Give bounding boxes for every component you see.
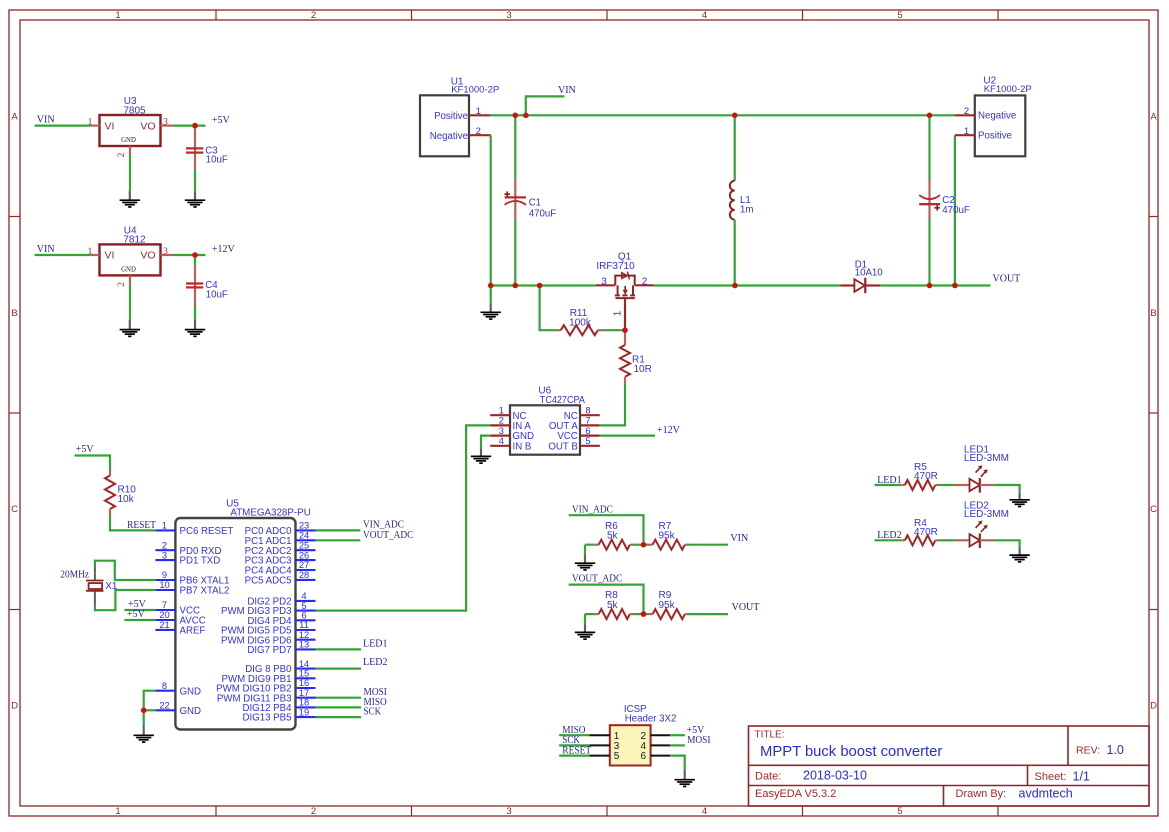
- ground: [120, 320, 140, 337]
- svg-text:2: 2: [499, 416, 504, 426]
- wire: [316, 667, 362, 669]
- svg-text:IRF3710: IRF3710: [596, 261, 635, 272]
- junction: [927, 113, 933, 119]
- resistor R11 100k: [556, 308, 603, 335]
- svg-text:VIN_ADC: VIN_ADC: [572, 504, 613, 515]
- svg-text:VI: VI: [105, 120, 115, 132]
- svg-text:C1: C1: [529, 198, 541, 209]
- net label RESET: [562, 745, 591, 756]
- svg-text:5: 5: [897, 806, 902, 817]
- svg-text:470uF: 470uF: [942, 205, 970, 216]
- net label MISO: [562, 725, 585, 736]
- resistor R10 10k: [105, 470, 136, 516]
- wire: [633, 544, 649, 546]
- svg-text:1: 1: [88, 247, 93, 257]
- svg-text:2: 2: [476, 126, 481, 137]
- svg-text:DIG13 PB5: DIG13 PB5: [242, 713, 291, 724]
- svg-text:VIN: VIN: [37, 115, 55, 126]
- svg-text:Positive: Positive: [978, 131, 1012, 142]
- svg-text:10: 10: [159, 580, 169, 590]
- wire: [316, 539, 361, 541]
- svg-text:5k: 5k: [607, 600, 619, 611]
- svg-text:TC427CPA: TC427CPA: [540, 395, 586, 406]
- net label VIN: [37, 115, 55, 126]
- svg-text:PC6 RESET: PC6 RESET: [180, 526, 234, 537]
- wire: [994, 485, 1019, 492]
- net label VOUT_ADC: [363, 530, 414, 541]
- wire: [129, 285, 131, 320]
- wire: [585, 544, 595, 546]
- junction: [732, 283, 738, 289]
- svg-text:10k: 10k: [118, 494, 135, 505]
- svg-text:RESET: RESET: [562, 745, 591, 756]
- ground: [1009, 548, 1029, 562]
- net flag +5V: [127, 609, 146, 620]
- op-amp driver U6 TC427CPA: [490, 385, 600, 454]
- wire: [689, 613, 729, 615]
- ground: [134, 726, 154, 742]
- svg-text:9: 9: [162, 570, 167, 580]
- capacitor C1 470uF: [504, 115, 556, 285]
- title block: [749, 726, 1150, 806]
- svg-text:2: 2: [964, 106, 969, 117]
- connector U1 KF1000-2P: [420, 76, 499, 156]
- svg-text:1/1: 1/1: [1073, 769, 1090, 783]
- svg-text:C: C: [1150, 504, 1157, 515]
- ground: [575, 624, 595, 639]
- svg-text:3: 3: [601, 276, 607, 287]
- resistor R8 5k: [595, 590, 633, 619]
- svg-text:7: 7: [585, 416, 590, 426]
- junction: [192, 123, 198, 129]
- wire: [144, 709, 156, 711]
- wire: [670, 744, 685, 746]
- svg-text:IN B: IN B: [513, 441, 532, 452]
- wire U6 GND: [481, 436, 490, 449]
- wire: [584, 614, 586, 624]
- net label VIN_ADC: [363, 520, 404, 531]
- net label VIN_ADC: [572, 504, 613, 515]
- svg-text:PC5 ADC5: PC5 ADC5: [245, 576, 292, 587]
- svg-text:5: 5: [585, 436, 590, 446]
- wire: [316, 716, 362, 718]
- LED LED2 LED-3MM: [955, 500, 1009, 548]
- svg-text:28: 28: [299, 570, 309, 580]
- svg-text:Negative: Negative: [430, 131, 468, 142]
- svg-text:DIG7 PD7: DIG7 PD7: [247, 645, 291, 656]
- svg-text:3: 3: [506, 10, 511, 21]
- svg-text:3: 3: [506, 806, 511, 817]
- svg-text:KF1000-2P: KF1000-2P: [451, 84, 499, 95]
- ground: [471, 449, 491, 463]
- wire: [569, 515, 644, 545]
- svg-text:2: 2: [311, 10, 316, 21]
- svg-text:7: 7: [162, 600, 167, 610]
- svg-text:470R: 470R: [914, 527, 938, 538]
- diode D1 10A10: [840, 259, 883, 293]
- svg-text:VOUT: VOUT: [732, 602, 760, 613]
- wire: [124, 609, 155, 611]
- svg-text:LED-3MM: LED-3MM: [964, 509, 1009, 520]
- svg-text:VIN: VIN: [558, 85, 576, 96]
- wire U2 pin1 drop: [954, 135, 956, 285]
- svg-text:6: 6: [301, 611, 306, 621]
- svg-text:100k: 100k: [569, 318, 592, 329]
- net label LED1: [363, 638, 387, 649]
- net label LED2: [877, 530, 901, 541]
- svg-text:3: 3: [499, 426, 504, 436]
- resistor R5 470R: [901, 462, 939, 490]
- svg-text:2: 2: [117, 152, 127, 157]
- svg-text:15: 15: [299, 669, 309, 679]
- net label SCK: [562, 735, 580, 746]
- svg-text:17: 17: [299, 688, 309, 698]
- net label MOSI: [687, 735, 710, 746]
- svg-text:16: 16: [299, 678, 309, 688]
- svg-text:3: 3: [163, 118, 168, 128]
- resistor R4 470R: [901, 518, 939, 545]
- svg-text:GND: GND: [180, 686, 202, 697]
- svg-text:OUT B: OUT B: [548, 441, 577, 452]
- svg-text:470R: 470R: [914, 471, 938, 482]
- net flag +5V: [128, 599, 147, 610]
- svg-text:4: 4: [702, 10, 707, 21]
- svg-text:EasyEDA V5.3.2: EasyEDA V5.3.2: [755, 788, 836, 800]
- svg-text:1: 1: [162, 521, 167, 531]
- junction: [537, 283, 543, 289]
- svg-text:5: 5: [614, 751, 620, 762]
- crystal X1 20MHz: [60, 567, 118, 605]
- svg-text:VOUT: VOUT: [993, 274, 1021, 285]
- svg-text:12: 12: [299, 630, 309, 640]
- wire: [35, 254, 91, 256]
- wire bottom rail mid: [654, 284, 840, 286]
- wire: [689, 544, 729, 546]
- ground: [481, 305, 501, 320]
- net label VIN: [37, 244, 55, 255]
- svg-text:1: 1: [964, 126, 969, 137]
- inductor L1 1m: [730, 115, 754, 285]
- net label VIN: [730, 533, 748, 544]
- net label MISO: [364, 697, 387, 708]
- svg-text:VOUT_ADC: VOUT_ADC: [363, 530, 414, 541]
- svg-text:GND: GND: [180, 706, 202, 717]
- wire: [124, 619, 155, 621]
- wire U6 VCC: [600, 435, 655, 437]
- svg-text:+5V: +5V: [212, 115, 231, 126]
- wire: [316, 529, 361, 531]
- net label VOUT: [993, 274, 1021, 285]
- svg-text:REV:: REV:: [1076, 745, 1100, 757]
- svg-text:5: 5: [301, 601, 306, 611]
- svg-text:11: 11: [299, 620, 309, 630]
- wire bottom rail right: [880, 284, 990, 286]
- header ICSP 3X2: [589, 704, 676, 765]
- svg-text:AREF: AREF: [180, 626, 206, 637]
- svg-text:VIN: VIN: [730, 533, 748, 544]
- net label MOSI: [364, 687, 387, 698]
- wire: [603, 329, 626, 331]
- svg-text:B: B: [1150, 308, 1156, 319]
- svg-text:C: C: [11, 504, 18, 515]
- wire: [316, 648, 362, 650]
- svg-text:26: 26: [299, 550, 309, 560]
- svg-text:RESET: RESET: [127, 520, 156, 531]
- svg-text:19: 19: [299, 707, 309, 717]
- svg-text:20: 20: [159, 610, 169, 620]
- svg-text:6: 6: [585, 426, 590, 436]
- svg-text:+5V: +5V: [76, 444, 95, 455]
- regulator U4 7812: [88, 225, 174, 286]
- svg-text:2018-03-10: 2018-03-10: [803, 768, 867, 782]
- ground: [120, 190, 140, 207]
- resistor R1 10R: [620, 330, 652, 383]
- wire GND pins: [144, 691, 156, 726]
- net flag +12V: [657, 425, 681, 436]
- svg-text:7805: 7805: [123, 105, 146, 116]
- svg-text:5k: 5k: [607, 530, 619, 541]
- svg-text:Negative: Negative: [978, 111, 1016, 122]
- resistor R7 95k: [649, 521, 689, 550]
- svg-text:24: 24: [299, 531, 309, 541]
- svg-text:D: D: [1150, 700, 1157, 711]
- junction: [927, 283, 933, 289]
- net flag +12V: [212, 244, 236, 255]
- svg-text:23: 23: [299, 521, 309, 531]
- svg-text:MPPT buck boost converter: MPPT buck boost converter: [760, 744, 942, 760]
- svg-text:2: 2: [311, 806, 316, 817]
- capacitor C3: [186, 126, 228, 170]
- svg-text:+5V: +5V: [127, 609, 146, 620]
- capacitor C4: [186, 255, 228, 306]
- connector U2 KF1000-2P: [955, 76, 1032, 157]
- net label VOUT: [732, 602, 760, 613]
- wire: [194, 306, 196, 320]
- svg-text:3: 3: [163, 247, 168, 257]
- wire: [559, 734, 589, 736]
- resistor R6 5k: [595, 521, 633, 550]
- net label LED1: [877, 475, 901, 486]
- svg-text:1: 1: [499, 405, 504, 415]
- svg-text:21: 21: [159, 620, 169, 630]
- svg-text:KF1000-2P: KF1000-2P: [984, 84, 1032, 95]
- wire R11 tap: [540, 286, 556, 331]
- svg-text:6: 6: [640, 751, 646, 762]
- junction: [513, 283, 519, 289]
- svg-text:TITLE:: TITLE:: [755, 730, 785, 741]
- svg-text:VO: VO: [140, 120, 155, 132]
- ground: [575, 555, 595, 570]
- svg-text:SCK: SCK: [364, 707, 382, 718]
- ground: [1009, 492, 1029, 506]
- net flag +5V: [212, 115, 231, 126]
- net label VIN: [526, 85, 576, 116]
- svg-text:1: 1: [476, 106, 481, 117]
- wire: [174, 124, 206, 126]
- wire: [939, 484, 955, 486]
- wire: [174, 254, 206, 256]
- wire XTAL2 loop: [95, 590, 155, 610]
- svg-text:VIN: VIN: [37, 244, 55, 255]
- svg-text:Header 3X2: Header 3X2: [625, 713, 677, 724]
- wire: [670, 734, 685, 736]
- wire bottom rail left: [491, 284, 596, 286]
- svg-text:1.0: 1.0: [1107, 743, 1124, 757]
- svg-text:1: 1: [88, 118, 93, 128]
- svg-text:1: 1: [115, 806, 120, 817]
- wire: [875, 539, 902, 541]
- wire: [129, 155, 131, 190]
- wire: [559, 754, 589, 756]
- junction: [952, 283, 958, 289]
- junction: [488, 283, 494, 289]
- svg-text:GND: GND: [121, 137, 136, 144]
- svg-text:Date:: Date:: [755, 770, 781, 782]
- svg-text:PD1 TXD: PD1 TXD: [180, 556, 221, 567]
- junction: [192, 252, 198, 258]
- svg-text:A: A: [11, 111, 18, 122]
- wire: [194, 169, 196, 190]
- junction: [641, 542, 647, 548]
- svg-text:10R: 10R: [634, 364, 652, 375]
- svg-text:2: 2: [117, 282, 127, 287]
- svg-text:D: D: [11, 700, 18, 711]
- ground: [185, 190, 205, 207]
- svg-text:MOSI: MOSI: [687, 735, 710, 746]
- svg-text:10A10: 10A10: [855, 267, 884, 278]
- wire: [939, 539, 955, 541]
- wire: [875, 484, 902, 486]
- wire: [316, 697, 362, 699]
- wire: [585, 613, 595, 615]
- wire: [35, 124, 91, 126]
- svg-text:ATMEGA328P-PU: ATMEGA328P-PU: [230, 508, 310, 519]
- svg-text:2: 2: [642, 276, 648, 287]
- svg-text:B: B: [11, 308, 17, 319]
- svg-text:25: 25: [299, 540, 309, 550]
- svg-text:95k: 95k: [659, 530, 676, 541]
- svg-text:LED1: LED1: [363, 638, 387, 649]
- wire U6 IN A to U5 PD3: [316, 425, 491, 610]
- wire: [569, 585, 644, 615]
- svg-text:10uF: 10uF: [206, 290, 228, 301]
- wire: [316, 706, 362, 708]
- svg-text:7812: 7812: [123, 235, 146, 246]
- svg-text:PB7 XTAL2: PB7 XTAL2: [180, 586, 230, 597]
- resistor R9 95k: [649, 590, 689, 619]
- regulator U3 7805: [88, 96, 174, 157]
- svg-text:4: 4: [702, 806, 707, 817]
- wire U1 pin2 drop: [490, 135, 492, 304]
- svg-text:GND: GND: [121, 266, 136, 273]
- svg-text:20MHz: 20MHz: [60, 570, 89, 581]
- wire: [633, 613, 649, 615]
- svg-text:+12V: +12V: [212, 244, 236, 255]
- capacitor C2 470uF: [919, 115, 970, 285]
- wire: [584, 545, 586, 555]
- svg-text:5: 5: [897, 10, 902, 21]
- wire: [110, 516, 155, 531]
- svg-text:1m: 1m: [740, 205, 753, 216]
- svg-text:Drawn By:: Drawn By:: [956, 788, 1007, 800]
- svg-text:1: 1: [613, 310, 624, 316]
- svg-text:4: 4: [499, 436, 504, 446]
- net label SCK: [364, 707, 382, 718]
- svg-text:VI: VI: [105, 250, 115, 262]
- svg-text:14: 14: [299, 659, 309, 669]
- net label RESET: [127, 520, 156, 531]
- svg-text:A: A: [1150, 111, 1157, 122]
- svg-text:470uF: 470uF: [529, 209, 557, 220]
- junction: [622, 327, 628, 333]
- junction: [513, 113, 519, 119]
- wire R1 to U6 OUT A: [600, 383, 625, 425]
- svg-text:Sheet:: Sheet:: [1035, 771, 1067, 783]
- svg-text:10uF: 10uF: [206, 155, 228, 166]
- svg-text:+12V: +12V: [657, 425, 681, 436]
- wire XTAL1 loop: [95, 561, 155, 580]
- ground: [675, 770, 695, 786]
- wire: [75, 456, 111, 471]
- svg-text:X1: X1: [105, 581, 118, 592]
- junction: [141, 708, 147, 714]
- svg-text:18: 18: [299, 698, 309, 708]
- wire: [670, 756, 685, 771]
- LED LED1 LED-3MM: [955, 444, 1009, 492]
- wire: [994, 540, 1019, 547]
- net label VOUT_ADC: [572, 574, 623, 585]
- svg-text:LED2: LED2: [363, 657, 387, 668]
- svg-text:8: 8: [162, 681, 167, 691]
- svg-text:4: 4: [301, 591, 306, 601]
- wire: [559, 744, 589, 746]
- svg-text:8: 8: [585, 405, 590, 415]
- svg-text:Positive: Positive: [434, 111, 468, 122]
- junction: [641, 611, 647, 617]
- svg-text:LED-3MM: LED-3MM: [964, 453, 1009, 464]
- net flag +5V: [687, 725, 706, 736]
- svg-text:VOUT_ADC: VOUT_ADC: [572, 574, 623, 585]
- transistor Q1 IRF3710: [596, 252, 654, 331]
- junction: [523, 113, 529, 119]
- net flag +5V: [76, 444, 95, 455]
- MCU U5 ATMEGA328P-PU: [155, 498, 315, 729]
- svg-text:2: 2: [162, 540, 167, 550]
- net label LED2: [363, 657, 387, 668]
- svg-text:13: 13: [299, 640, 309, 650]
- svg-text:27: 27: [299, 560, 309, 570]
- junction: [732, 113, 738, 119]
- ground: [185, 320, 205, 337]
- svg-text:22: 22: [159, 701, 169, 711]
- svg-text:3: 3: [162, 550, 167, 560]
- svg-text:avdmtech: avdmtech: [1019, 786, 1073, 800]
- svg-text:1: 1: [115, 10, 120, 21]
- svg-text:95k: 95k: [659, 600, 676, 611]
- svg-text:VO: VO: [140, 250, 155, 262]
- wire VIN top bus: [491, 114, 955, 116]
